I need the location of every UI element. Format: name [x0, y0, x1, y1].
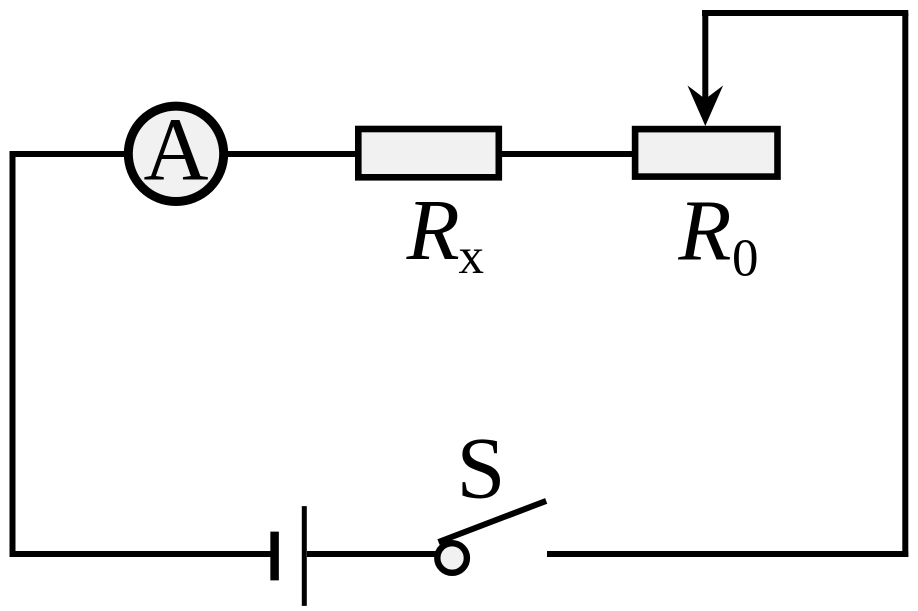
wire Rx to R0	[499, 151, 635, 157]
rheostat R0	[635, 129, 777, 177]
battery positive plate (long thin)	[302, 506, 307, 606]
svg-text:R: R	[406, 181, 460, 278]
svg-text:A: A	[144, 101, 209, 200]
switch lever	[439, 501, 547, 542]
resistor Rx	[358, 129, 499, 177]
wire top left horizontal (corner to ammeter)	[10, 151, 129, 157]
battery negative plate (short thick)	[270, 532, 279, 581]
svg-text:0: 0	[732, 230, 759, 288]
ammeter A	[128, 106, 223, 201]
svg-text:R: R	[677, 182, 731, 279]
wire left vertical	[10, 154, 16, 554]
wire battery to switch	[307, 551, 437, 557]
rheostat wiper shaft	[702, 13, 708, 100]
wire switch to bottom right corner	[547, 551, 908, 557]
wire top right horizontal	[702, 10, 908, 16]
svg-text:S: S	[457, 421, 506, 518]
svg-text:x: x	[459, 229, 485, 285]
rheostat wiper arrowhead	[688, 86, 724, 127]
wire right vertical	[902, 13, 908, 557]
wire bottom left segment (to battery)	[10, 551, 272, 557]
wire ammeter to Rx	[225, 151, 358, 157]
switch S contact circle	[437, 543, 467, 573]
